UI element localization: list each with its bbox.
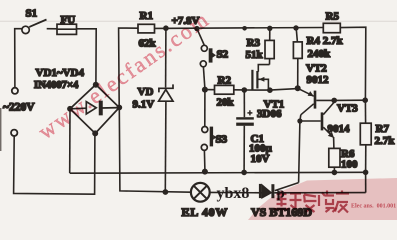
- svg-text:9.1V: 9.1V: [133, 99, 155, 111]
- svg-text:20k: 20k: [217, 97, 235, 109]
- wire fuse to bridge top corner: [77, 29, 97, 84]
- svg-text:VD1~VD4: VD1~VD4: [36, 67, 85, 79]
- wire S1 to fuse: [47, 28, 57, 30]
- wire +7.8V rail R1 to R5: [155, 27, 324, 30]
- resistor R6: [329, 148, 340, 172]
- wire node B to source junction: [244, 89, 270, 91]
- svg-text:R5: R5: [326, 10, 340, 22]
- node right rail tap: [362, 97, 368, 103]
- node zener tap on rail: [163, 25, 169, 31]
- svg-text:VD: VD: [138, 86, 154, 98]
- watermark www.elecfans.com: [33, 6, 214, 144]
- wire rail to S2: [197, 29, 204, 45]
- node R6 to ground rail: [332, 170, 338, 176]
- node R4 tap on rail: [293, 25, 298, 30]
- svg-text:R2: R2: [218, 75, 232, 87]
- upper AC terminal: [12, 88, 18, 94]
- svg-text:Elec ans.001.001: Elec ans.001.001: [351, 204, 396, 210]
- node bridge bottom corner: [92, 130, 98, 136]
- zener diode VD lead from rail: [165, 28, 167, 87]
- resistor R7: [360, 123, 371, 145]
- wire junction to right rail: [334, 99, 365, 101]
- wire VT2 collector down to SCR gate: [299, 115, 301, 183]
- svg-text:VT3: VT3: [337, 102, 358, 114]
- lamp EL 40W: [191, 183, 210, 202]
- node zener wire to lamp line: [163, 189, 169, 195]
- wire S2 to node A: [203, 67, 204, 87]
- svg-text:9012: 9012: [307, 74, 330, 86]
- svg-text:240k: 240k: [308, 48, 332, 60]
- zener diode VD: [159, 84, 173, 101]
- push-button S3: [201, 127, 216, 151]
- node R3 tap on rail: [267, 26, 272, 31]
- svg-text:R3: R3: [247, 37, 261, 49]
- svg-text:51k: 51k: [246, 49, 264, 61]
- node bridge right corner: [116, 105, 122, 111]
- svg-text:~220V: ~220V: [3, 102, 35, 114]
- bridge rectifier VD1-VD4: [70, 85, 119, 134]
- node VT3 base junction: [297, 118, 302, 123]
- node bridge top corner: [93, 82, 99, 88]
- wire zener anode down to lamp line: [164, 101, 167, 192]
- switch S1: [22, 20, 47, 34]
- svg-text:10V: 10V: [251, 153, 270, 165]
- transistor VT3 9014: [300, 102, 334, 148]
- svg-text:S1: S1: [26, 8, 38, 20]
- wire lamp to thyristor: [210, 191, 262, 193]
- svg-text:100: 100: [341, 158, 358, 170]
- fuse FU: [57, 24, 77, 34]
- resistor R1: [138, 24, 155, 33]
- svg-text:3D06: 3D06: [257, 108, 282, 120]
- capacitor C1: [236, 90, 254, 172]
- wire right rail to R7: [364, 100, 366, 123]
- wire bridge right corner down to lamp: [119, 108, 190, 192]
- wire right corner down to SCR cathode line: [365, 172, 367, 192]
- SCR gate diagonal: [275, 183, 299, 191]
- svg-text:R1: R1: [140, 10, 153, 22]
- push-button S2: [200, 45, 216, 67]
- resistor R2: [205, 85, 244, 94]
- MOSFET VT1: [251, 65, 269, 91]
- resistor R5: [323, 23, 340, 32]
- wire R5 to right rail corner and down: [340, 27, 366, 100]
- svg-text:2.7k: 2.7k: [375, 135, 396, 147]
- node VT1 source junction: [267, 87, 273, 93]
- node A junction S2 R2 S3: [202, 87, 208, 93]
- node S2 tap on rail: [194, 26, 199, 31]
- lower AC terminal: [11, 130, 17, 136]
- svg-text:ybx8: ybx8: [217, 185, 250, 202]
- node B junction R2 C1 VT1 gate: [242, 87, 248, 93]
- wire R7 to ground node: [365, 145, 367, 172]
- wire bridge right corner up to R1: [119, 28, 138, 107]
- svg-text:IN4007×4: IN4007×4: [34, 80, 79, 91]
- wire bridge left corner to ground rail: [69, 109, 71, 173]
- wire S3 to ground rail: [203, 151, 206, 171]
- ground rail DC minus bus: [70, 171, 366, 174]
- svg-text:R4 2.7k: R4 2.7k: [307, 35, 344, 47]
- svg-text:VT2: VT2: [306, 62, 327, 74]
- scan edge mark left: [0, 108, 2, 151]
- svg-text:EL 40W: EL 40W: [182, 205, 229, 219]
- svg-text:S3: S3: [216, 134, 228, 146]
- wire lower AC terminal to bridge bottom corner: [14, 134, 95, 194]
- watermark glyph strokes dianzifashaoyou: [274, 191, 350, 213]
- transistor VT2 9012: [298, 88, 335, 115]
- node C1 to ground rail: [241, 170, 247, 176]
- node S3 to ground rail: [202, 169, 208, 175]
- faint scan fold line: [0, 20, 397, 22]
- svg-text:FU: FU: [61, 14, 76, 26]
- watermark pink block bottom right: [248, 178, 397, 220]
- node ground right corner: [363, 170, 369, 176]
- thyristor VS BT169D: [259, 184, 366, 198]
- wire upper AC terminal to S1: [15, 29, 23, 88]
- node bridge left corner: [67, 106, 73, 112]
- wire node A down to S3: [204, 90, 206, 127]
- svg-text:S2: S2: [217, 49, 229, 61]
- node VT2 base VT3 collector junction: [331, 98, 337, 104]
- resistor R4: [293, 28, 302, 86]
- svg-text:9014: 9014: [328, 123, 351, 135]
- wire source junction to VT2 emitter node: [270, 89, 298, 91]
- resistor R3: [265, 28, 274, 64]
- svg-text:R7: R7: [376, 123, 390, 135]
- node VT2 emitter junction: [295, 85, 301, 91]
- stray junction blob on rail: [242, 26, 247, 31]
